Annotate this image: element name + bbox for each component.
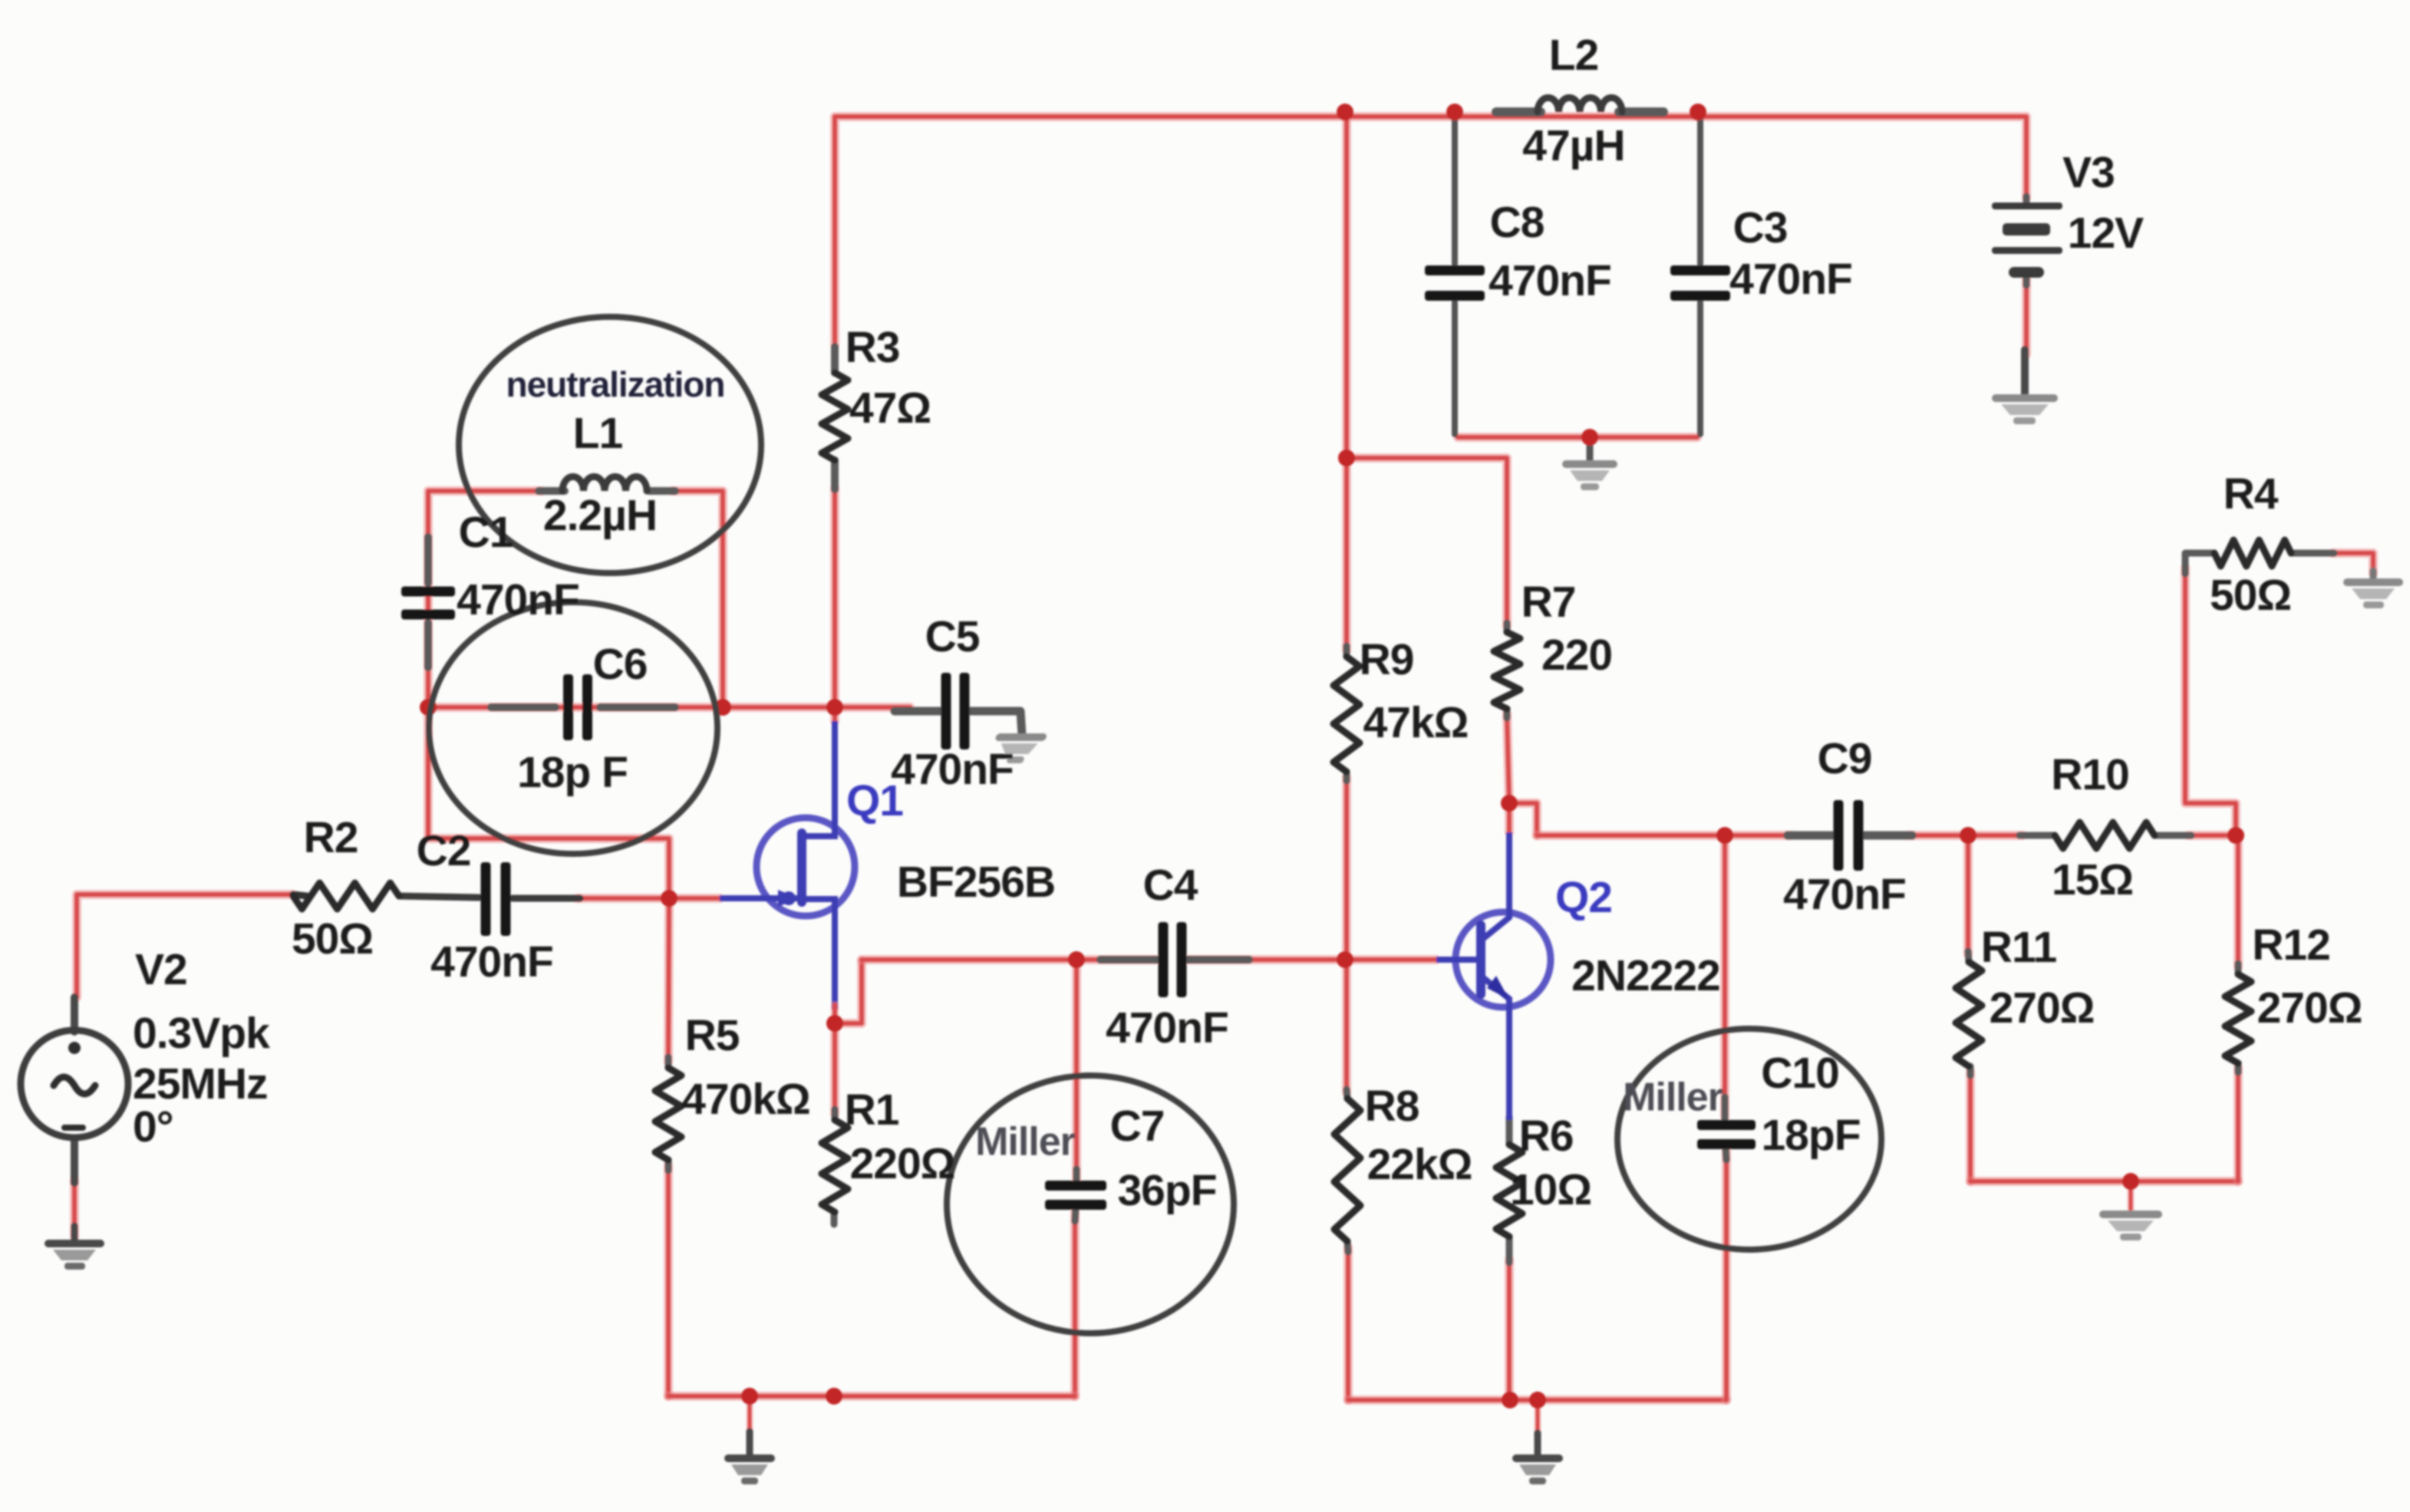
svg-text:220: 220 [1541, 631, 1612, 680]
svg-text:BF256B: BF256B [897, 858, 1055, 907]
svg-text:C3: C3 [1733, 203, 1788, 252]
svg-text:270Ω: 270Ω [1990, 983, 2095, 1033]
svg-text:0.3Vpk: 0.3Vpk [133, 1009, 270, 1058]
svg-text:25MHz: 25MHz [133, 1059, 268, 1108]
svg-text:R3: R3 [846, 323, 900, 372]
svg-text:R2: R2 [304, 813, 358, 862]
svg-text:C2: C2 [417, 826, 471, 875]
svg-text:R4: R4 [2224, 469, 2279, 519]
svg-text:470kΩ: 470kΩ [681, 1075, 810, 1124]
svg-text:470nF: 470nF [430, 937, 553, 987]
svg-text:0°: 0° [133, 1102, 173, 1151]
svg-text:neutralization: neutralization [506, 364, 724, 404]
svg-text:R8: R8 [1365, 1082, 1419, 1131]
svg-text:C1: C1 [459, 508, 513, 557]
svg-text:270Ω: 270Ω [2257, 983, 2362, 1033]
svg-text:V3: V3 [2062, 148, 2115, 197]
svg-text:Miller: Miller [1623, 1076, 1723, 1120]
svg-text:36pF: 36pF [1117, 1166, 1216, 1215]
svg-text:22kΩ: 22kΩ [1367, 1140, 1472, 1189]
svg-text:Miller: Miller [975, 1120, 1076, 1164]
svg-text:10Ω: 10Ω [1510, 1165, 1591, 1214]
svg-text:C7: C7 [1110, 1102, 1165, 1151]
svg-text:C8: C8 [1490, 198, 1545, 247]
svg-text:12V: 12V [2068, 209, 2144, 258]
svg-text:C6: C6 [593, 640, 648, 689]
svg-text:R1: R1 [845, 1085, 899, 1135]
svg-text:C9: C9 [1818, 734, 1872, 783]
svg-text:R12: R12 [2252, 921, 2330, 970]
svg-text:L1: L1 [573, 409, 623, 458]
svg-text:R9: R9 [1360, 635, 1414, 684]
svg-text:2N2222: 2N2222 [1571, 951, 1720, 1000]
svg-text:L2: L2 [1549, 31, 1599, 80]
svg-text:R6: R6 [1519, 1112, 1574, 1161]
svg-text:Q1: Q1 [846, 776, 903, 825]
svg-text:C10: C10 [1761, 1049, 1839, 1098]
svg-text:C4: C4 [1143, 861, 1198, 910]
svg-text:50Ω: 50Ω [2210, 571, 2291, 620]
svg-text:18p F: 18p F [517, 748, 628, 797]
svg-text:R7: R7 [1521, 578, 1576, 627]
svg-text:R11: R11 [1981, 923, 2057, 972]
svg-text:R5: R5 [685, 1011, 740, 1060]
svg-text:470nF: 470nF [457, 575, 579, 624]
svg-text:47µH: 47µH [1522, 121, 1624, 170]
svg-text:47kΩ: 47kΩ [1363, 698, 1469, 747]
svg-text:220Ω: 220Ω [850, 1139, 955, 1188]
svg-text:C5: C5 [925, 612, 980, 661]
svg-text:470nF: 470nF [1783, 870, 1906, 919]
svg-text:50Ω: 50Ω [292, 914, 373, 964]
svg-text:470nF: 470nF [1729, 255, 1852, 304]
svg-text:470nF: 470nF [891, 745, 1014, 794]
svg-text:15Ω: 15Ω [2052, 855, 2133, 904]
svg-text:2.2µH: 2.2µH [543, 491, 657, 540]
svg-text:V2: V2 [135, 945, 187, 994]
svg-text:R10: R10 [2051, 750, 2129, 799]
svg-text:18pF: 18pF [1761, 1111, 1860, 1160]
svg-text:Q2: Q2 [1555, 873, 1612, 922]
svg-text:470nF: 470nF [1489, 256, 1611, 305]
svg-text:47Ω: 47Ω [849, 384, 931, 433]
svg-text:470nF: 470nF [1106, 1003, 1228, 1052]
